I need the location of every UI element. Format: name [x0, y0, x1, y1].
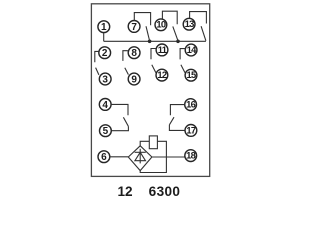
pin 3	[99, 73, 111, 85]
pin 11	[156, 44, 168, 56]
pin 8	[128, 47, 140, 59]
svg-text:16: 16	[186, 99, 196, 110]
svg-text:6: 6	[101, 152, 107, 163]
svg-text:8: 8	[131, 48, 137, 59]
switch armature pins 4-5	[123, 117, 128, 126]
wire: pin 11 contact hook	[151, 49, 156, 60]
wire: pin 8 contact hook	[123, 51, 128, 61]
wire: pin 2 contact hook	[95, 51, 99, 62]
pin 16	[185, 99, 197, 111]
wire: pin 14 contact hook	[180, 49, 185, 60]
switch armature pins 11-12	[152, 65, 156, 73]
svg-text:4: 4	[102, 100, 108, 111]
pin 1	[98, 21, 110, 33]
switch armature pin 7	[146, 26, 150, 41]
node: junction dot under pin 10 contact	[176, 40, 180, 44]
pin 14	[185, 44, 197, 56]
wire: pin 16 contact arm	[170, 105, 184, 116]
svg-text:12: 12	[157, 69, 167, 80]
bridge rectifier diamond	[128, 146, 152, 171]
switch armature pin 13	[201, 26, 206, 41]
svg-text:17: 17	[186, 124, 196, 135]
switch armature pins 2-3	[96, 68, 99, 75]
wire: pin 5 contact arm	[111, 126, 128, 130]
svg-text:3: 3	[102, 74, 108, 85]
pin 12	[156, 69, 168, 81]
wire: coil loop from rectifier	[140, 141, 166, 172]
pin 5	[100, 125, 112, 137]
pin 7	[128, 21, 140, 33]
pin 6	[98, 151, 110, 163]
switch armature pins 14-15	[181, 65, 185, 73]
pin 17	[185, 124, 197, 136]
switch armature pins 16-17	[169, 117, 174, 125]
diode inside rectifier	[135, 149, 146, 164]
svg-text:18: 18	[186, 150, 196, 161]
node: junction dot under pin 7 contact	[148, 40, 152, 44]
svg-text:2: 2	[102, 48, 108, 59]
wire: pin 1 lead to common bus	[103, 33, 105, 41]
wire: pin 6 to rectifier	[110, 156, 128, 158]
pin 18	[185, 150, 197, 162]
wire: rectifier to pin 18	[152, 156, 185, 158]
svg-text:1: 1	[101, 22, 107, 33]
switch armature pins 8-9	[125, 68, 129, 75]
relay case outline	[91, 4, 209, 177]
svg-text:14: 14	[187, 44, 198, 55]
wire: pin 4 contact arm	[111, 104, 128, 115]
wire: pin 7 fixed-contact bracket	[134, 13, 150, 26]
pin 10	[155, 19, 167, 31]
svg-text:13: 13	[185, 18, 195, 29]
relay coil box	[149, 136, 157, 149]
pin 15	[185, 69, 197, 81]
svg-text:15: 15	[186, 69, 196, 80]
svg-text:6300: 6300	[149, 184, 181, 199]
svg-text:5: 5	[103, 126, 109, 137]
pin 2	[99, 47, 111, 59]
svg-text:10: 10	[156, 19, 166, 30]
switch armature pin 10	[173, 26, 178, 40]
svg-text:12: 12	[117, 184, 133, 199]
pin 9	[128, 73, 140, 85]
pin 13	[183, 18, 195, 30]
pin 4	[99, 99, 111, 111]
svg-text:9: 9	[131, 74, 137, 85]
svg-text:11: 11	[158, 44, 167, 55]
wire: common bus	[104, 40, 206, 42]
wire: pin 10 fixed-contact bracket	[162, 11, 177, 24]
wire: pin 13 fixed-contact bracket	[190, 12, 207, 24]
svg-text:7: 7	[131, 22, 137, 33]
wire: pin 17 contact arm	[169, 125, 185, 131]
